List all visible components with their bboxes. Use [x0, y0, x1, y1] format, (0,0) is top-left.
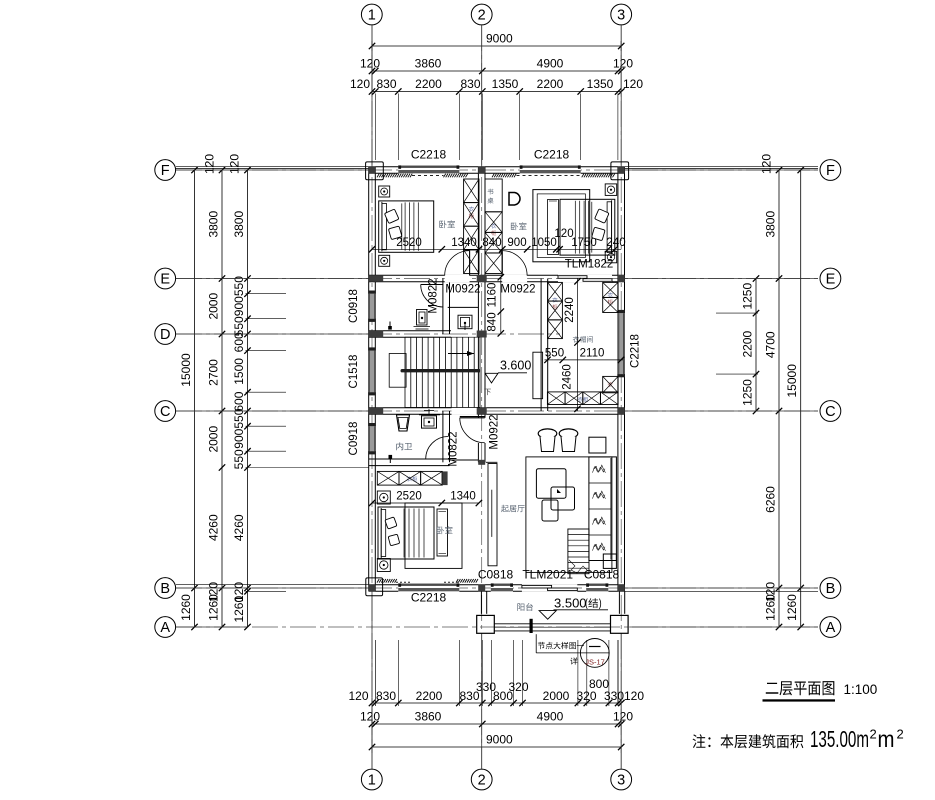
svg-text:2000: 2000 [207, 293, 221, 320]
grid line axis E horizontal [176, 278, 819, 280]
svg-text:2520: 2520 [396, 491, 422, 503]
wardrobe strip closet room left [548, 282, 563, 338]
svg-text:C0918: C0918 [348, 422, 360, 456]
washbasin corridor [458, 315, 472, 330]
svg-text:120: 120 [613, 710, 633, 724]
svg-text:1500: 1500 [232, 358, 246, 385]
svg-text:C1518: C1518 [348, 355, 360, 389]
niche divider wall corridor [448, 306, 479, 308]
bed bedroom top-left [379, 201, 434, 252]
svg-text:2: 2 [478, 773, 486, 789]
svg-text:830: 830 [460, 77, 480, 91]
nightstand top-left lower [379, 255, 390, 266]
svg-text:550: 550 [545, 348, 564, 360]
svg-text:2200: 2200 [741, 331, 755, 358]
svg-text:15000: 15000 [179, 353, 193, 387]
grid bubble E left [155, 268, 176, 289]
window C0818 bottom 1 [491, 583, 513, 592]
side table living [589, 437, 606, 453]
label C2218 top-left [411, 148, 447, 162]
svg-text:JS-17: JS-17 [585, 658, 605, 667]
svg-text:TLM2021: TLM2021 [522, 568, 573, 582]
svg-text:1340: 1340 [450, 491, 476, 503]
exterior wall right (axis 3) [618, 167, 625, 592]
svg-text:1: 1 [368, 773, 376, 789]
svg-text:15000: 15000 [785, 364, 799, 398]
dimension line left inner chain [228, 154, 369, 631]
svg-text:830: 830 [376, 689, 396, 703]
interior wall axis 2 lobby to living [478, 411, 485, 462]
svg-text:F: F [826, 163, 835, 179]
svg-text:2: 2 [478, 8, 486, 24]
svg-text:1250: 1250 [741, 283, 755, 310]
svg-text:C2218: C2218 [411, 591, 447, 605]
coffee table group living [536, 469, 574, 521]
grid line axis C horizontal [176, 410, 819, 412]
bed bedroom bottom-left [378, 507, 434, 559]
dimension line top 120 830 2200 830 1350 2200 1350 120 [350, 41, 643, 160]
grid bubble F left [155, 160, 176, 181]
corner trim top-left [366, 162, 384, 180]
label bedroom bottom-left [437, 526, 453, 534]
grid line axis B horizontal [176, 587, 819, 589]
svg-text:3860: 3860 [415, 710, 442, 724]
svg-text:3860: 3860 [415, 57, 442, 71]
window C2218 bottom-left [398, 583, 459, 592]
grid solid segments outside plan [176, 25, 818, 769]
toilet bathroom1 [414, 310, 431, 330]
svg-text:550: 550 [232, 449, 246, 469]
svg-text:1160: 1160 [487, 283, 499, 308]
interior wall axis 2 between top bedrooms and stairwell [478, 167, 485, 411]
floor drain bathroom2 [389, 455, 393, 463]
dimension line bottom 9000 [369, 698, 625, 753]
interior wall closet room left [541, 279, 548, 412]
washbasin bathroom2 [397, 415, 410, 431]
stair flight lower in living [568, 529, 589, 574]
dimension line left mid 3800 2000 2700 2000 4260 1260 [203, 154, 226, 631]
svg-text:2200: 2200 [415, 77, 442, 91]
grid bubble D left [155, 324, 176, 345]
dimension line top 9000 [369, 32, 625, 52]
svg-text:A: A [160, 620, 170, 636]
balcony post left [477, 615, 495, 633]
svg-text:C: C [825, 404, 835, 420]
label M0922 right [500, 284, 535, 296]
svg-text:840: 840 [487, 312, 499, 331]
label C0818 right [584, 568, 620, 582]
svg-text:9000: 9000 [486, 733, 513, 747]
desk strip top-right bedroom [485, 179, 502, 212]
label C2218 right wall vertical [630, 334, 642, 368]
window C0818 bottom 2 [586, 583, 608, 592]
svg-text:120: 120 [350, 77, 370, 91]
corner trim bottom-left [366, 578, 383, 596]
dimension line right mid 3800 4700 6260 1260 [760, 154, 783, 631]
window C1518 left middle [368, 347, 376, 395]
svg-text:C0918: C0918 [348, 289, 360, 323]
toilet bathroom2 [419, 409, 440, 428]
svg-text:E: E [826, 272, 836, 288]
label bathroom2 [396, 442, 412, 450]
opening M0922 right in wall E [502, 275, 527, 283]
label bedroom top-left [439, 220, 455, 228]
sofa living room [589, 457, 617, 561]
label M0822 bathroom2 vertical [448, 431, 460, 466]
grid bubble 2 [471, 4, 492, 25]
svg-text:1050: 1050 [531, 237, 557, 249]
svg-text:TLM1822: TLM1822 [565, 259, 614, 271]
dimension line top 120 3860 4900 120 [360, 57, 633, 75]
end table living [603, 554, 616, 568]
svg-text:M0822: M0822 [448, 431, 460, 466]
closet strip above bedroom bottom-left [377, 471, 447, 485]
svg-text:3800: 3800 [207, 211, 221, 238]
svg-text:1260: 1260 [207, 594, 221, 621]
svg-text:D: D [160, 327, 170, 343]
svg-text:120: 120 [228, 154, 242, 174]
opening M0922 left in wall E [445, 275, 470, 283]
interior wall bathroom1 right [443, 279, 450, 335]
door M0922 right bedroom [502, 251, 527, 276]
rug outline bedroom bottom-left [405, 503, 462, 568]
grid line axis 2 vertical [481, 25, 483, 769]
door M0922 left bedroom [445, 251, 470, 276]
svg-text:4260: 4260 [207, 514, 221, 541]
svg-text:9000: 9000 [486, 32, 513, 46]
columns at grid intersections [369, 167, 625, 592]
nightstand top-right lower [605, 251, 617, 262]
dimension line left outer 15000 / 1260 [179, 167, 198, 630]
grid bubble A left [155, 617, 176, 638]
label M0822 bathroom1 vertical [428, 278, 440, 313]
svg-text:240: 240 [606, 237, 625, 249]
grid bubble 3 [611, 769, 632, 790]
svg-text:M0822: M0822 [428, 278, 440, 313]
svg-text:C: C [160, 404, 170, 420]
exterior wall top (axis F) [369, 167, 625, 174]
interior dim 2520 1340 bedroom2 [369, 491, 482, 507]
svg-text:2200: 2200 [416, 689, 443, 703]
nightstand bottom-left lower [377, 559, 390, 572]
svg-text:830: 830 [376, 77, 396, 91]
svg-text:M0922: M0922 [489, 414, 501, 449]
grid bubble B right [820, 578, 841, 599]
balcony side walls [481, 591, 624, 614]
grid bubble A right [820, 617, 841, 638]
chair D shape [509, 193, 520, 206]
label C0918 lower vertical [348, 422, 360, 456]
interior wall axis C [369, 408, 625, 415]
nightstand bottom-left upper [377, 491, 390, 504]
svg-text:120: 120 [203, 154, 217, 174]
level mark 3.600 with triangle and down label [484, 359, 531, 396]
svg-text:4900: 4900 [537, 710, 564, 724]
detail callout node [536, 634, 609, 667]
grid bubble 1 [361, 4, 382, 25]
corner trim top-right [611, 162, 629, 180]
window C2218 right wall [617, 310, 625, 377]
balcony post right [611, 615, 629, 633]
svg-text:2: 2 [897, 727, 904, 742]
grid bubble 3 [611, 4, 632, 25]
interior dim row top bedrooms [369, 228, 626, 253]
note building area [693, 726, 904, 752]
label C2218 bottom [411, 591, 447, 605]
label C1518 vertical [348, 355, 360, 389]
svg-text:E: E [160, 272, 170, 288]
interior wall bathroom2 right [443, 411, 450, 462]
svg-text:2700: 2700 [207, 359, 221, 386]
opening TLM1822 in wall E [558, 275, 612, 283]
svg-text:120: 120 [613, 57, 633, 71]
svg-text:4900: 4900 [537, 57, 564, 71]
dresser bedroom bottom-left [437, 509, 448, 556]
label M0922 left [445, 284, 480, 296]
floor drain bathroom1 [388, 322, 392, 330]
wardrobe strip below desk [485, 212, 502, 274]
railing half wall living room [486, 462, 498, 566]
exterior wall bottom (axis B) [369, 585, 625, 592]
svg-text:135.00m: 135.00m [810, 726, 869, 752]
nightstand top-right upper [605, 184, 617, 196]
svg-text:3.600: 3.600 [500, 359, 531, 373]
interior wall below bathroom2 [369, 459, 450, 466]
svg-text:F: F [161, 163, 170, 179]
label C0918 upper vertical [348, 289, 360, 323]
svg-text:600: 600 [232, 391, 246, 411]
svg-text:600: 600 [232, 332, 246, 352]
dimension line right inner chain 1250 2200 1250 [716, 275, 759, 414]
dimension line right outer 15000 / 1260 [785, 167, 804, 630]
svg-text:C0818: C0818 [584, 568, 620, 582]
svg-text:C2218: C2218 [534, 148, 570, 162]
svg-text:1350: 1350 [492, 77, 519, 91]
nightstand top-left upper [379, 186, 390, 197]
window C2218 top-right [520, 165, 581, 174]
svg-text:1: 1 [368, 8, 376, 24]
svg-text:B: B [826, 581, 836, 597]
extension lines building edge to dims [176, 167, 818, 592]
exterior wall left (axis 1) [369, 167, 376, 592]
label TLM1822 [565, 259, 614, 271]
svg-text:2240: 2240 [564, 297, 576, 323]
grid bubble 2 [471, 769, 492, 790]
dimension line bottom chain [348, 640, 644, 706]
flue rect left of closet room [533, 352, 543, 399]
window C0918 left lower [368, 423, 376, 454]
window C0918 left upper [368, 291, 376, 322]
tiny closet labels [407, 206, 613, 481]
svg-text:1260: 1260 [179, 594, 193, 621]
door M0822 bathroom1 [421, 285, 444, 308]
svg-text:C2218: C2218 [630, 334, 642, 368]
bed bedroom top-right [560, 199, 615, 255]
wardrobe strip bedroom top-left [464, 179, 479, 274]
svg-text:1:100: 1:100 [844, 682, 878, 697]
grid line axis F horizontal [176, 169, 819, 171]
grid line axis A horizontal [176, 626, 819, 628]
title second floor plan [763, 681, 878, 702]
svg-text:120: 120 [623, 77, 643, 91]
lintel hatch strips top wall [377, 174, 615, 178]
grid bubble C right [820, 401, 841, 422]
svg-text:3: 3 [617, 8, 625, 24]
label M0922 living vertical [489, 414, 501, 449]
armchair living 2 [559, 429, 578, 452]
svg-text:120: 120 [624, 689, 644, 703]
armchair living 1 [538, 429, 557, 452]
svg-text:2000: 2000 [207, 426, 221, 453]
svg-text:1340: 1340 [451, 237, 477, 249]
svg-text:120: 120 [760, 154, 774, 174]
svg-text:C0818: C0818 [478, 568, 514, 582]
svg-text:900: 900 [232, 428, 246, 448]
svg-text:C2218: C2218 [411, 148, 447, 162]
svg-text:1260: 1260 [785, 594, 799, 621]
svg-text:120: 120 [360, 710, 380, 724]
staircase [389, 337, 480, 407]
svg-text:B: B [160, 581, 170, 597]
door M0822 bathroom2 [426, 437, 449, 460]
svg-text:4700: 4700 [764, 331, 778, 358]
grid line axis 1 vertical [371, 25, 373, 769]
svg-text:A: A [826, 620, 836, 636]
lobby bottom line [449, 459, 478, 461]
sliding door TLM1822 [558, 276, 612, 282]
label living room [501, 505, 524, 512]
svg-text:120: 120 [360, 57, 380, 71]
interior wall axis D [369, 331, 451, 338]
svg-text:2000: 2000 [543, 689, 570, 703]
svg-text:1260: 1260 [764, 594, 778, 621]
label TLM2021 [522, 568, 573, 582]
rug outline top-right bedroom [533, 190, 590, 262]
label balcony [517, 603, 533, 611]
svg-text:320: 320 [508, 680, 528, 694]
svg-text:M0922: M0922 [445, 284, 480, 296]
svg-text:2: 2 [870, 727, 877, 742]
interior dims closet room [544, 278, 624, 412]
svg-text:1350: 1350 [587, 77, 614, 91]
svg-text:3800: 3800 [764, 211, 778, 238]
svg-text:2200: 2200 [537, 77, 564, 91]
rug living room [526, 457, 612, 573]
label closet room [573, 336, 593, 343]
label bedroom top-right [511, 222, 527, 230]
window C2218 top-left [398, 165, 459, 174]
grid bubble 1 [361, 769, 382, 790]
opening corridor in wall C [452, 407, 478, 415]
door M0922 lobby to living [460, 417, 485, 443]
interior dim 1160 840 corridor [487, 274, 505, 337]
label C0818 left [478, 568, 514, 582]
wardrobe strip closet room right top [603, 282, 618, 312]
wardrobe strip closet room bottom [547, 392, 618, 405]
grid line axis 3 vertical [620, 25, 622, 769]
svg-text:3: 3 [617, 773, 625, 789]
svg-text:4260: 4260 [232, 514, 246, 541]
grid line axis D horizontal [176, 333, 560, 335]
grid bubble E right [820, 268, 841, 289]
sliding door TLM2021 bottom [522, 584, 577, 592]
grid bubble F right [820, 160, 841, 181]
svg-text:2520: 2520 [396, 237, 422, 249]
balcony railing [494, 619, 610, 633]
svg-text:2110: 2110 [580, 348, 605, 360]
level mark 3.500 [539, 596, 608, 620]
svg-text:900: 900 [232, 296, 246, 316]
svg-text:m: m [878, 726, 895, 752]
svg-text:3800: 3800 [232, 211, 246, 238]
grid bubble C left [155, 401, 176, 422]
lintel hatch strips bottom wall [377, 579, 478, 583]
svg-text:M0922: M0922 [500, 284, 535, 296]
grid bubble B left [155, 578, 176, 599]
interior wall axis E [369, 275, 625, 282]
dimension line bottom 120 3860 4900 120 [360, 710, 633, 728]
label C2218 top-right [534, 148, 570, 162]
svg-text:2460: 2460 [562, 364, 574, 390]
wardrobe strip closet room right bottom [603, 376, 618, 392]
svg-text:120: 120 [348, 689, 368, 703]
svg-text:900: 900 [507, 237, 526, 249]
dresser top-right bedroom [548, 200, 559, 255]
svg-text:3.500: 3.500 [554, 596, 587, 611]
svg-text:1250: 1250 [741, 379, 755, 406]
svg-text:6260: 6260 [764, 486, 778, 513]
